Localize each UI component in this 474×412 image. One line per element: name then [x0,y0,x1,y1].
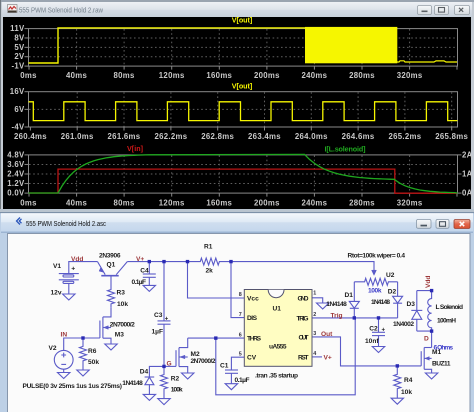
node D [430,329,433,332]
frame [29,29,458,67]
svg-text:-1V: -1V [11,62,25,71]
svg-text:10nf: 10nf [365,338,379,345]
wire GND pin1 [312,298,323,303]
svg-text:1N4002: 1N4002 [393,321,414,328]
svg-text:160ms: 160ms [206,71,232,80]
svg-text:263.4ms: 263.4ms [248,132,281,141]
svg-text:OUT: OUT [299,335,309,342]
capacitor C4 [143,263,156,285]
pin numbers U1 [239,291,316,358]
black plot client area [3,17,471,209]
svg-text:100k: 100k [368,287,382,294]
svg-text:2.4V: 2.4V [7,170,25,179]
wire Vdd rail from V1 [69,262,98,274]
svg-text:U1: U1 [273,305,282,312]
svg-text:-4V: -4V [11,123,25,132]
svg-text:40ms: 40ms [66,198,88,207]
svg-text:1A: 1A [462,170,473,179]
svg-text:0ms: 0ms [20,71,37,80]
svg-text:C3: C3 [154,312,163,319]
pot wiper arrow [372,270,377,275]
svg-text:D2: D2 [388,288,397,295]
svg-text:0.1µF: 0.1µF [132,279,147,286]
svg-text:7: 7 [239,312,242,318]
svg-text:10k: 10k [401,389,412,396]
resistor R4 [394,366,401,398]
node Trig-D1 [353,316,356,319]
svg-text:2N3906: 2N3906 [99,253,121,260]
svg-text:Rtot=100k wiper= 0.4: Rtot=100k wiper= 0.4 [348,253,406,260]
window buttons [418,6,470,15]
schematic client area [8,234,471,412]
node Trig-C2 [377,316,380,319]
wire Vdd right / inductor top [417,291,432,299]
svg-text:1.2V: 1.2V [7,179,25,188]
svg-text:D4: D4 [140,369,149,376]
ground under R2 [158,399,170,405]
svg-text:261.6ms: 261.6ms [108,132,141,141]
svg-text:260.4ms: 260.4ms [14,132,47,141]
svg-text:50k: 50k [88,359,99,366]
node Vdd-L [430,289,433,292]
svg-text:5: 5 [239,352,242,358]
diode D4 [145,366,164,394]
svg-text:IN: IN [61,331,68,338]
svg-text:12v: 12v [51,290,62,297]
svg-text:10k: 10k [117,301,128,308]
svg-text:120ms: 120ms [159,71,185,80]
svg-text:THRS: THRS [247,336,262,343]
wire DIS pin7 [231,263,244,318]
svg-text:GND: GND [298,295,309,302]
svg-text:D3: D3 [407,301,416,308]
node G [162,365,165,368]
svg-text:240ms: 240ms [302,198,328,207]
svg-text:G: G [167,361,172,368]
svg-text:uA555: uA555 [269,343,287,350]
svg-text:C4: C4 [140,267,149,274]
svg-text:RST: RST [298,354,309,361]
window buttons [417,220,471,229]
h gridlines [29,38,457,57]
svg-text:40ms: 40ms [66,71,88,80]
svg-text:261.0ms: 261.0ms [61,132,94,141]
ground under D4 [143,394,155,400]
svg-text:R1: R1 [204,244,213,251]
svg-text:264.0ms: 264.0ms [295,132,328,141]
capacitor C3 [158,263,171,365]
svg-text:11V: 11V [10,24,25,33]
junction dots [81,260,433,368]
svg-text:Trig: Trig [331,312,343,319]
svg-text:DIS: DIS [247,315,258,322]
svg-text:V2: V2 [49,345,57,352]
svg-text:80ms: 80ms [114,198,136,207]
svg-text:0.1µF: 0.1µF [235,377,250,384]
title bar top window [2,2,472,17]
wire Trig net [312,317,398,319]
ground under C1 [225,384,237,390]
svg-text:264.6ms: 264.6ms [342,132,375,141]
ground under R6 [77,370,89,376]
svg-text:PULSE(0 3v 25ms 1us 1us 275ms): PULSE(0 3v 25ms 1us 1us 275ms) [23,383,123,390]
net labels [61,256,433,368]
svg-text:2A: 2A [462,151,473,160]
svg-text:3.6V: 3.6V [7,160,25,169]
svg-text:Vcc: Vcc [247,295,259,302]
svg-text:0A: 0A [462,189,473,198]
ground under C4 [143,285,155,291]
svg-text:D1: D1 [345,292,354,299]
svg-text:8V: 8V [14,34,25,43]
battery V1 [59,274,79,294]
ground under M1 [425,373,437,379]
potentiometer U2 [354,278,397,285]
node R1-DIS [229,260,232,263]
wire V+ rail [127,261,199,263]
y labels + ticks [25,29,29,67]
wire D node [417,331,432,347]
svg-text:160ms: 160ms [206,198,232,207]
svg-text:3: 3 [313,331,316,337]
svg-text:Q1: Q1 [107,261,116,268]
svg-text:200ms: 200ms [254,198,280,207]
svg-text:262.2ms: 262.2ms [154,132,187,141]
svg-text:200ms: 200ms [254,71,280,80]
svg-text:R2: R2 [171,376,180,383]
inductor L solenoid [428,299,432,332]
ground under M3 [105,344,117,350]
svg-text:555 PWM Solenoid Hold 2.raw: 555 PWM Solenoid Hold 2.raw [19,6,103,15]
wire THRS net [188,337,245,339]
svg-text:V[in]: V[in] [127,144,143,153]
diode D2 [393,282,403,318]
node V+ C4 [148,260,151,263]
trace V(in) red [29,169,458,193]
schematic file icon [17,218,22,225]
svg-text:Vdd: Vdd [71,256,83,263]
ground under R4 [391,398,403,404]
resistor R3 [108,288,115,307]
wire RST stub [312,356,322,358]
svg-text:V+: V+ [136,256,144,263]
ground under V1 [63,294,75,300]
svg-text:CV: CV [247,355,257,362]
svg-text:V+: V+ [324,354,332,361]
wire rail R1 to pot wiper [223,262,374,271]
svg-text:V[out]: V[out] [232,15,253,24]
mosfet M3 [83,307,111,344]
svg-text:240ms: 240ms [302,71,328,80]
IC U1 555 body [244,290,312,367]
svg-text:0ms: 0ms [20,198,37,207]
svg-text:262.8ms: 262.8ms [201,132,234,141]
svg-text:16V: 16V [10,87,25,96]
svg-text:R3: R3 [117,290,126,297]
svg-text:6V: 6V [14,105,25,114]
resistor R6 [80,338,87,370]
svg-text:2: 2 [313,312,316,318]
node V+ Vcc [186,260,189,263]
svg-text:M2: M2 [191,351,200,358]
ground at 555 GND [317,303,329,309]
svg-text:BUZ11: BUZ11 [432,361,451,368]
svg-text:I[L.solenoid]: I[L.solenoid] [325,145,366,154]
capacitor C2 [372,318,385,347]
wire IN net [64,338,83,350]
ground under V2 [58,373,70,379]
v gridlines [77,29,410,66]
resistor R2 [161,366,168,398]
node THRS [214,336,217,339]
svg-text:1N4148: 1N4148 [371,299,390,306]
svg-text:0.0V: 0.0V [7,189,25,198]
svg-text:V[out]: V[out] [232,81,253,90]
svg-text:1N4148: 1N4148 [122,380,143,387]
svg-text:2N7000/2: 2N7000/2 [191,358,216,365]
node Out-R4 [396,364,399,367]
svg-text:L Solenoid: L Solenoid [436,304,464,311]
trace I(L.solenoid) green [29,154,458,193]
svg-text:265.2ms: 265.2ms [388,132,421,141]
diode D3 [411,291,422,332]
svg-text:2k: 2k [206,268,214,275]
ground under M2 [182,373,194,379]
resistor R1 [200,258,224,265]
svg-text:U2: U2 [386,272,395,279]
svg-text:2V: 2V [14,52,25,61]
svg-text:100mH: 100mH [437,318,456,325]
svg-text:+: + [382,328,386,334]
svg-text:TRIG: TRIG [297,315,309,322]
svg-text:C2: C2 [369,326,378,333]
svg-text:555 PWM Solenoid Hold 2.asc: 555 PWM Solenoid Hold 2.asc [26,219,106,228]
svg-text:Vdd: Vdd [425,276,432,288]
mosfet M2 [164,338,188,373]
source V2 [54,350,73,372]
svg-text:R6: R6 [88,348,97,355]
wire OUT net [312,337,421,366]
svg-text:C1: C1 [220,362,229,369]
node IN [81,336,84,339]
svg-text:D: D [424,335,429,342]
svg-text:1N4148: 1N4148 [326,301,347,308]
svg-text:5V: 5V [14,43,25,52]
svg-text:1µF: 1µF [152,328,164,335]
svg-text:1: 1 [313,291,316,297]
blue value labels [368,287,453,351]
svg-text:80ms: 80ms [114,71,136,80]
diode D1 [349,282,359,318]
svg-text:8: 8 [239,292,242,298]
svg-text:V1: V1 [53,263,61,270]
svg-text:M3: M3 [115,332,124,339]
svg-text:6: 6 [239,333,242,339]
svg-text:+: + [71,266,75,273]
svg-text:320ms: 320ms [397,198,423,207]
transistor Q1 [98,262,128,288]
wire CV to C1 [231,357,244,370]
title bar bottom window [1,213,473,232]
svg-text:280ms: 280ms [349,198,375,207]
ground under C2 [372,347,384,353]
x ticks [29,66,457,70]
wire Vcc pin8 [188,263,245,298]
svg-text:265.8ms: 265.8ms [435,132,468,141]
svg-text:4: 4 [313,351,316,357]
mosfet M1 [421,348,431,373]
svg-text:Out: Out [321,331,333,338]
waveform file icon [8,5,18,13]
node V+ C3 [162,260,165,263]
svg-text:.tran .35 startup: .tran .35 startup [255,373,298,380]
svg-text:280ms: 280ms [349,71,375,80]
svg-text:320ms: 320ms [397,71,423,80]
svg-text:100k: 100k [171,387,183,394]
svg-text:120ms: 120ms [159,198,185,207]
capacitor C1 [225,370,238,384]
svg-text:+: + [165,316,169,322]
svg-text:2N7000/2: 2N7000/2 [110,322,135,329]
svg-text:4.8V: 4.8V [7,150,25,159]
trace V(out) [29,28,306,63]
svg-text:R4: R4 [404,377,413,384]
svg-text:6 Ohms: 6 Ohms [434,345,454,352]
